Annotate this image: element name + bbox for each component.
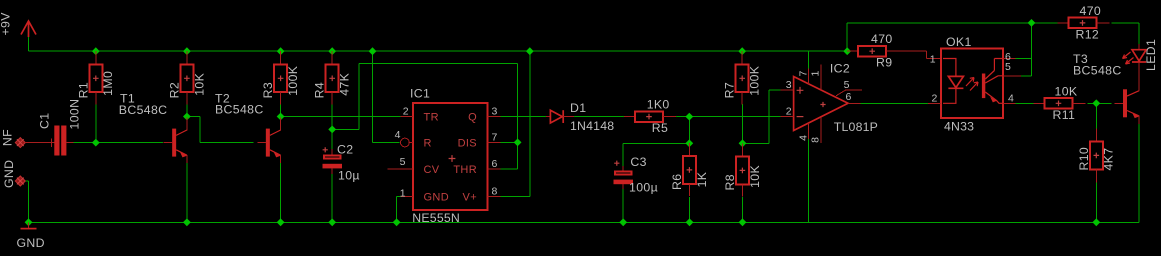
svg-text:NE555N: NE555N xyxy=(412,211,460,225)
svg-text:THR: THR xyxy=(453,164,477,176)
svg-text:4: 4 xyxy=(798,135,810,141)
svg-text:100K: 100K xyxy=(286,65,300,96)
svg-text:R10: R10 xyxy=(1077,147,1091,171)
svg-text:V+: V+ xyxy=(463,191,477,203)
svg-text:Q: Q xyxy=(468,111,477,123)
svg-text:2: 2 xyxy=(932,92,938,104)
svg-text:4: 4 xyxy=(1008,92,1014,104)
svg-text:10µ: 10µ xyxy=(338,169,360,183)
svg-text:R3: R3 xyxy=(261,82,275,98)
svg-text:BC548C: BC548C xyxy=(1073,64,1122,78)
svg-text:1K0: 1K0 xyxy=(647,98,670,112)
svg-text:R1: R1 xyxy=(76,82,90,98)
svg-text:10K: 10K xyxy=(192,72,206,95)
svg-text:BC548C: BC548C xyxy=(119,103,168,117)
svg-text:1: 1 xyxy=(809,70,821,76)
svg-text:10K: 10K xyxy=(748,165,762,188)
svg-text:7: 7 xyxy=(798,70,810,76)
svg-text:4: 4 xyxy=(395,129,401,141)
svg-text:LED1: LED1 xyxy=(1144,39,1158,71)
svg-text:R9: R9 xyxy=(876,56,892,70)
svg-text:R7: R7 xyxy=(723,82,737,98)
svg-text:R11: R11 xyxy=(1053,108,1076,122)
svg-text:100K: 100K xyxy=(748,65,762,96)
svg-text:C3: C3 xyxy=(630,155,646,169)
svg-text:2: 2 xyxy=(786,106,792,118)
svg-text:1M0: 1M0 xyxy=(101,71,115,96)
svg-text:R4: R4 xyxy=(313,82,327,98)
svg-text:3: 3 xyxy=(786,79,792,91)
svg-text:100µ: 100µ xyxy=(629,181,658,195)
svg-text:GND: GND xyxy=(17,236,45,250)
svg-text:R6: R6 xyxy=(670,174,684,190)
svg-text:IC1: IC1 xyxy=(410,87,430,101)
svg-text:4N33: 4N33 xyxy=(944,120,974,134)
svg-text:R8: R8 xyxy=(723,174,737,190)
svg-text:CV: CV xyxy=(424,164,440,176)
svg-text:OK1: OK1 xyxy=(946,35,972,49)
svg-text:7: 7 xyxy=(492,131,498,143)
svg-text:GND: GND xyxy=(424,191,450,203)
svg-text:1N4148: 1N4148 xyxy=(570,119,614,133)
svg-text:D1: D1 xyxy=(570,101,586,115)
svg-text:IC2: IC2 xyxy=(830,62,850,76)
svg-text:BC548C: BC548C xyxy=(215,103,264,117)
svg-text:3: 3 xyxy=(492,106,498,118)
svg-text:R: R xyxy=(424,137,432,149)
svg-text:R5: R5 xyxy=(652,121,668,135)
svg-text:10K: 10K xyxy=(1055,84,1078,98)
svg-text:C2: C2 xyxy=(337,143,353,157)
svg-text:100N: 100N xyxy=(68,99,82,130)
svg-text:5: 5 xyxy=(844,79,850,91)
svg-text:6: 6 xyxy=(846,91,852,103)
svg-text:DIS: DIS xyxy=(458,137,477,149)
svg-text:6: 6 xyxy=(492,158,498,170)
svg-text:1: 1 xyxy=(930,54,936,66)
svg-text:TR: TR xyxy=(424,111,439,123)
svg-text:GND: GND xyxy=(2,160,16,188)
svg-text:470: 470 xyxy=(871,32,893,46)
svg-text:8: 8 xyxy=(809,137,821,143)
svg-text:1: 1 xyxy=(400,188,406,200)
svg-text:R12: R12 xyxy=(1076,27,1100,41)
svg-text:NF: NF xyxy=(1,129,15,146)
svg-text:47K: 47K xyxy=(338,72,352,95)
svg-text:8: 8 xyxy=(492,186,498,198)
svg-text:R2: R2 xyxy=(167,82,181,98)
svg-text:+9V: +9V xyxy=(0,12,13,36)
svg-text:TL081P: TL081P xyxy=(834,120,878,134)
svg-text:C1: C1 xyxy=(38,113,52,129)
svg-text:1K: 1K xyxy=(695,171,709,187)
svg-text:4K7: 4K7 xyxy=(1102,148,1116,171)
svg-text:5: 5 xyxy=(1005,61,1011,73)
svg-text:5: 5 xyxy=(400,156,406,168)
svg-text:470: 470 xyxy=(1080,4,1102,18)
svg-text:2: 2 xyxy=(403,106,409,118)
